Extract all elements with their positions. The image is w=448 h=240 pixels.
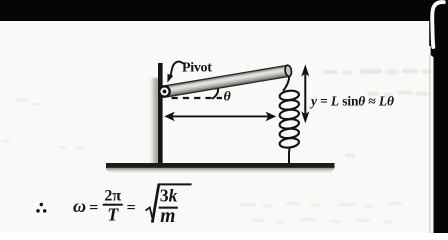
equation omega = 2pi/T [73, 188, 136, 225]
horizontal span arrow [164, 112, 276, 122]
svg-text:ω: ω [73, 196, 86, 216]
dashed horizontal reference line [172, 97, 223, 99]
svg-text:3k: 3k [160, 186, 178, 206]
therefore symbol [36, 203, 46, 213]
angle arc [212, 86, 218, 99]
svg-text:y = L sinθ ≈ Lθ: y = L sinθ ≈ Lθ [309, 93, 394, 108]
spring top connector [283, 77, 289, 91]
pivot pointer arrow [167, 62, 183, 83]
ground [106, 163, 335, 173]
pivot circle [159, 86, 169, 96]
spring bottom connector [288, 147, 291, 164]
svg-text:2π: 2π [104, 188, 121, 205]
spring coils [279, 90, 299, 149]
rod (tilted cylinder) [164, 65, 293, 97]
svg-text:=: = [89, 199, 98, 216]
svg-text:θ: θ [224, 90, 232, 105]
wall [150, 63, 163, 166]
radical sqrt(3k/m) [146, 184, 192, 227]
svg-text:T: T [107, 205, 119, 225]
svg-text:Pivot: Pivot [182, 61, 212, 76]
svg-text:m: m [160, 206, 175, 227]
svg-text:=: = [127, 199, 136, 216]
vertical displacement arrow [301, 64, 309, 123]
rod end cap [284, 65, 292, 77]
